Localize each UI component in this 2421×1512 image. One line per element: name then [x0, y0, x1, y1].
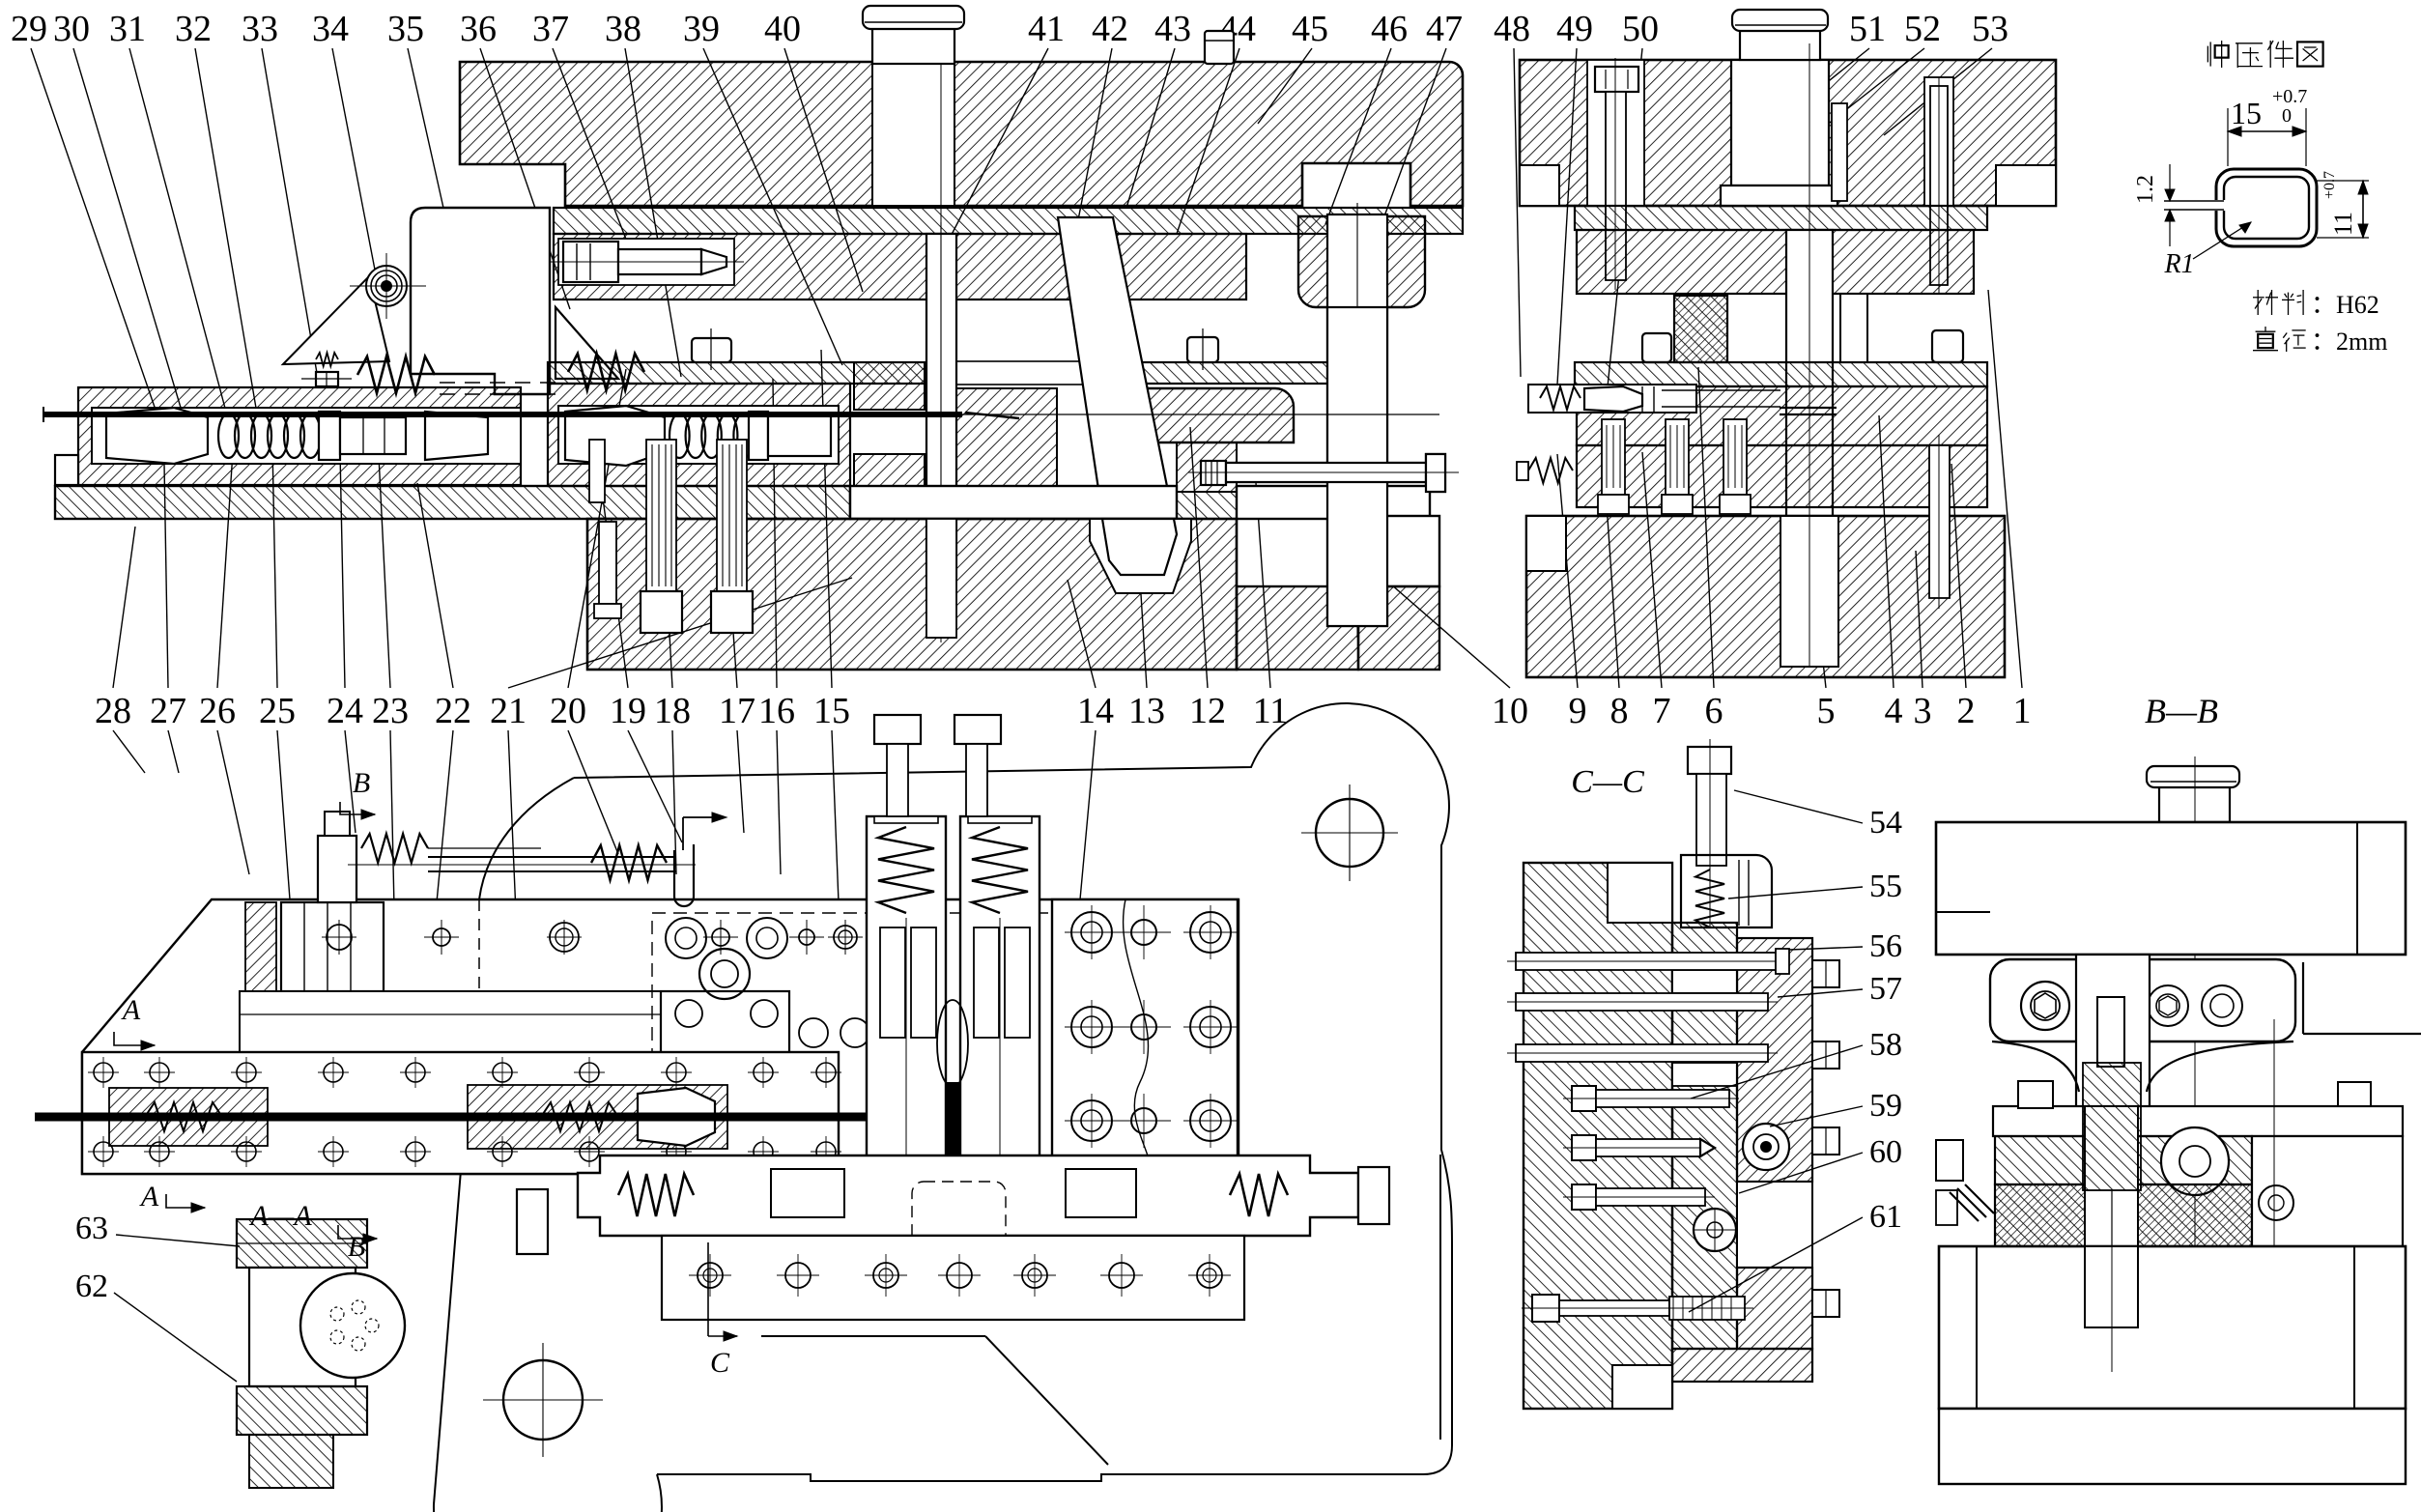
bolster B-B [1939, 1409, 2406, 1484]
svg-text:12: 12 [1189, 691, 1226, 731]
leader line 53 [1884, 48, 1992, 135]
leader line 6 up [1698, 367, 1714, 688]
leader line 25 down [277, 730, 290, 899]
lower die shoe left view [587, 519, 1237, 670]
bottom-left notch [1520, 165, 1559, 206]
screw head bumps right [1812, 960, 1839, 987]
bracket 62 bottom flange [237, 1386, 367, 1435]
leader line 19 down [628, 730, 682, 842]
svg-text:：2mm: ：2mm [2311, 328, 2387, 356]
second rail spring [591, 845, 667, 880]
leader line 44 [1177, 48, 1239, 234]
riser block (cross hatched) [1674, 296, 1727, 362]
bottom flange C-C [1672, 1349, 1812, 1382]
upper plate plan (stripper) [82, 899, 1239, 1180]
die area dashed boundary [652, 913, 1106, 1171]
svg-text:20: 20 [550, 691, 586, 731]
leader line 22 up [417, 483, 453, 688]
svg-text:5: 5 [1817, 691, 1836, 731]
svg-text:43: 43 [1154, 9, 1191, 49]
break curve across right block [1124, 899, 1152, 1180]
bracket foot [249, 1435, 333, 1488]
svg-text:35: 35 [387, 9, 424, 49]
die shank 51 top [1740, 29, 1820, 60]
svg-text:54: 54 [1869, 805, 1902, 841]
svg-text:1.2: 1.2 [2133, 175, 2158, 204]
small pin right of shank [1832, 103, 1847, 201]
svg-text:18: 18 [654, 691, 691, 731]
screw row 5 [1572, 1135, 1596, 1160]
leader line 31 [129, 48, 227, 415]
leader line 18 down [672, 730, 676, 874]
stud on stripper right [1187, 337, 1218, 362]
punch retainer block plan [661, 991, 789, 1180]
svg-text:26: 26 [199, 691, 236, 731]
hidden edge dashed [478, 899, 480, 1051]
screw pocket in right top plate [1587, 60, 1644, 206]
socket set screw in plate 43 [558, 239, 734, 285]
central punch block B-B [2076, 955, 2150, 1109]
slit in part [2210, 200, 2226, 211]
leader line 13 up [1132, 454, 1147, 688]
shank through-hole in top plate [872, 62, 954, 206]
stripper band right [1575, 362, 1987, 386]
rail feeder internals middle [468, 1085, 727, 1149]
feed strip centerline right [961, 414, 1439, 415]
leader line 21 up [508, 578, 852, 688]
leader line 20 up [568, 369, 626, 688]
svg-text:21: 21 [490, 691, 527, 731]
bolt above guide unit [318, 836, 356, 902]
leader line 19 up [597, 454, 628, 688]
lower die base plate 21 [55, 486, 850, 519]
leader line 7 up [1642, 452, 1662, 688]
cap screw 54 [1688, 747, 1731, 774]
slug hole below punch [926, 577, 956, 638]
svg-text:23: 23 [372, 691, 409, 731]
lower shoe B-B [1939, 1246, 2406, 1409]
guide pillar 47 redraw [1327, 307, 1387, 626]
leader line 47 [1345, 48, 1446, 324]
svg-text:3: 3 [1914, 691, 1932, 731]
svg-text:24: 24 [327, 691, 363, 731]
bolts above spring units [874, 715, 921, 744]
svg-text:R1: R1 [2163, 249, 2194, 279]
leader line 45 [1258, 48, 1312, 124]
svg-text:9: 9 [1569, 691, 1587, 731]
svg-text:51: 51 [1849, 9, 1886, 49]
stud bolt 44 top [1205, 31, 1234, 64]
leader line 11 up [1256, 483, 1270, 688]
stock guide block 35 [411, 208, 550, 394]
right small block C-C [1737, 938, 1812, 1182]
right block plan [1052, 899, 1238, 1180]
wire clamp cone left [106, 408, 208, 464]
bottom lobe [434, 1474, 662, 1512]
svg-text:30: 30 [53, 9, 90, 49]
svg-text:31: 31 [109, 9, 146, 49]
feeder rail block plan [82, 1052, 839, 1174]
feed spring middle [669, 414, 690, 458]
leader line 48 [1514, 48, 1521, 377]
shank hole + part 51 [1731, 60, 1829, 185]
top plate right view [1520, 60, 2056, 206]
bottom-right notch [1996, 165, 2056, 206]
svg-text:6: 6 [1705, 691, 1723, 731]
slug hole right view [1780, 516, 1838, 667]
stud on stripper left [692, 338, 731, 362]
leader line 16 down [777, 730, 781, 874]
title chong-ya-jian-tu [2207, 41, 2228, 68]
leader line 27 down [168, 730, 179, 773]
svg-text:+0.7: +0.7 [2272, 86, 2307, 107]
svg-text:49: 49 [1556, 9, 1593, 49]
cap screw in shoe A [646, 440, 676, 591]
leader line 23 up [379, 456, 390, 688]
bending cam 42 [1058, 217, 1177, 575]
leader line 43 [1126, 48, 1175, 208]
leader line 36 [480, 48, 570, 309]
svg-text:11: 11 [2329, 212, 2357, 236]
svg-text:63: 63 [75, 1211, 108, 1246]
leader line 5 up [1795, 406, 1826, 688]
bracket body [249, 1268, 356, 1386]
leader line 39 [703, 48, 842, 365]
leader line 26 up [217, 437, 234, 688]
svg-text:B—B: B—B [2145, 692, 2218, 730]
lobe circle bottom [503, 1360, 583, 1440]
leader line 29 [31, 48, 157, 415]
svg-text:58: 58 [1869, 1027, 1902, 1063]
punch 41 [926, 234, 956, 577]
svg-text:+0.7: +0.7 [2321, 171, 2338, 199]
bottom plate hole row [698, 1263, 723, 1288]
feed-line spring far left 30 [357, 357, 435, 393]
holes row on upper plate [327, 925, 352, 950]
svg-text:56: 56 [1869, 928, 1902, 964]
slug slot in shoe [926, 519, 956, 638]
leader line 24 down [345, 730, 356, 833]
dim 11 +0.7/0 right [2317, 180, 2369, 182]
svg-text:53: 53 [1972, 9, 2008, 49]
punch through bands B-B [2085, 1106, 2138, 1246]
leader line 18 up [659, 437, 672, 688]
stripper bolt below base [599, 522, 616, 604]
leader line 28 down [113, 730, 145, 773]
cap screw 50 [1595, 67, 1638, 92]
feed spring left [218, 414, 239, 458]
fastening screw 11 redraw [1226, 463, 1426, 482]
wire guide channel right [1528, 385, 1696, 413]
leader line 14 up [1068, 580, 1096, 688]
leader line 41 [942, 48, 1048, 253]
svg-text:47: 47 [1426, 9, 1463, 49]
svg-text:57: 57 [1869, 971, 1902, 1007]
svg-text:59: 59 [1869, 1088, 1902, 1124]
centerline B-B [2194, 756, 2196, 1420]
shank B-B [2159, 785, 2230, 822]
leader line 37 [553, 48, 630, 249]
svg-text:17: 17 [719, 691, 755, 731]
circle group mid [676, 1054, 701, 1079]
feeder block middle 37 [548, 384, 850, 486]
ghost dash lines [440, 382, 565, 384]
svg-text:1: 1 [2013, 691, 2032, 731]
svg-text:61: 61 [1869, 1199, 1902, 1235]
svg-text:4: 4 [1885, 691, 1903, 731]
bracket 63 top flange [237, 1219, 367, 1268]
leader line 50 [1606, 48, 1642, 406]
main hatched block C-C [1524, 863, 1672, 1409]
svg-text:39: 39 [683, 9, 720, 49]
leader line 14 down [1080, 730, 1096, 899]
leader line 25 up [272, 446, 277, 688]
die shank on top plate [872, 25, 954, 64]
top plate B-B [1936, 822, 2406, 955]
leader line 10 up [1383, 578, 1510, 688]
svg-text:36: 36 [460, 9, 497, 49]
bottom plate plan [662, 1236, 1244, 1320]
svg-text:8: 8 [1610, 691, 1629, 731]
lower shoe right support block [1358, 516, 1439, 586]
leader line 42 [1074, 48, 1112, 240]
strip guide rail plan [428, 856, 676, 858]
lower rail with springs [578, 1155, 1358, 1236]
part outline rounded square [2216, 169, 2317, 246]
leader line 35 [408, 48, 449, 234]
leader line 15 up [821, 350, 832, 688]
punch slot in shoe B-B [2085, 1246, 2138, 1327]
leader line 8 up [1604, 462, 1619, 688]
svg-text:45: 45 [1292, 9, 1328, 49]
leader line 4 up [1879, 415, 1894, 688]
leader line 34 [332, 48, 379, 290]
svg-text:15: 15 [813, 691, 850, 731]
leader line 52 [1799, 48, 1924, 147]
right plate edge B-B [2302, 962, 2304, 1034]
punch holder plate right [1577, 230, 1974, 294]
leader line 28 up [113, 527, 135, 688]
die plate band B-B [1993, 1106, 2403, 1136]
leader line 17 down [737, 730, 744, 833]
horizontal channel in plan [240, 991, 661, 1052]
die retainer block 13 [1120, 388, 1294, 442]
shoe inner right edge [1439, 1155, 1441, 1440]
right block holes 3x3 [1071, 912, 1112, 953]
spring 55 [1695, 870, 1724, 927]
svg-text:46: 46 [1371, 9, 1408, 49]
svg-text:2: 2 [1957, 691, 1976, 731]
funnel marks below punch unit [850, 1174, 945, 1196]
svg-text:34: 34 [312, 9, 349, 49]
C section top mark [682, 817, 684, 850]
cam clearance pocket in shoe [1090, 519, 1191, 593]
leader line 15 down [832, 730, 839, 902]
socket screws B-B [2021, 982, 2069, 1030]
pin 52 [1930, 86, 1948, 285]
leader line 46 [1325, 48, 1391, 224]
leader line 27 up [164, 464, 168, 688]
screw band right [1577, 445, 1987, 507]
leader line 33 [262, 48, 319, 385]
svg-text:33: 33 [242, 9, 278, 49]
svg-text:48: 48 [1494, 9, 1530, 49]
notch left [1526, 516, 1566, 571]
svg-text:15: 15 [2231, 96, 2262, 130]
svg-text:22: 22 [435, 691, 471, 731]
leader line 51 [1785, 48, 1869, 116]
screw row 4 [1572, 1086, 1596, 1111]
dowel pin 19 [589, 440, 605, 502]
svg-text:55: 55 [1869, 869, 1902, 904]
svg-text:16: 16 [758, 691, 795, 731]
circle group upper [666, 918, 706, 958]
rocker arm 33 [283, 276, 389, 364]
svg-text:A: A [121, 994, 141, 1026]
svg-text:27: 27 [150, 691, 186, 731]
leader line 9 up [1557, 454, 1578, 688]
svg-text:29: 29 [11, 9, 47, 49]
svg-text:7: 7 [1653, 691, 1671, 731]
lower dowel right [1929, 445, 1950, 598]
feeder channel middle [558, 406, 839, 464]
spring right of bolt [361, 834, 428, 863]
svg-text:25: 25 [259, 691, 296, 731]
punch rod right view [1786, 230, 1833, 562]
upper die shoe (top plate) part 45 [460, 62, 1463, 206]
leader line 38 [625, 48, 681, 377]
screw+spring mech 2 [609, 1058, 686, 1083]
svg-text:38: 38 [605, 9, 641, 49]
leader line 12 up [1190, 427, 1208, 688]
roller / eyelet 34 [366, 266, 407, 306]
svg-text:60: 60 [1869, 1134, 1902, 1170]
diameter note [2253, 327, 2278, 351]
strip channel lines right view [1662, 389, 1780, 391]
leader line 23 down [390, 730, 394, 908]
screw row 6 [1572, 1184, 1596, 1210]
notch bottom [1612, 1365, 1672, 1409]
cap screw in shoe B [717, 440, 747, 591]
leader line 26 down [217, 730, 249, 874]
dark band B-B [1995, 1184, 2252, 1246]
leader line 21 down [508, 730, 522, 1051]
leader line 17 up [720, 437, 737, 688]
guide bushing 46 [1298, 216, 1425, 307]
screw+spring mech 1 [361, 1058, 417, 1083]
guide unit 23/24 plan [281, 902, 384, 991]
wire clamp cone middle [565, 406, 665, 466]
stripper plate top band [548, 362, 1353, 384]
leader line 1 up [1988, 290, 2022, 688]
leader line 2 up [1951, 464, 1966, 688]
circle 60 [1694, 1209, 1736, 1251]
svg-text:C—C: C—C [1571, 764, 1644, 800]
pin row 1 [1516, 953, 1776, 970]
right band B-B [2252, 1136, 2403, 1246]
svg-text:13: 13 [1128, 691, 1165, 731]
lifter spring 38 left [568, 354, 644, 390]
long screw row 7 [1532, 1295, 1559, 1322]
C section letter bottom [707, 1242, 709, 1336]
svg-text:50: 50 [1622, 9, 1659, 49]
leader line 40 [784, 48, 863, 292]
svg-text:B: B [353, 767, 370, 799]
svg-text:28: 28 [95, 691, 131, 731]
feeder channel left [92, 408, 521, 464]
small screws in screw band [1602, 419, 1625, 495]
punch fixing plate 43 [554, 234, 1246, 300]
upper holder B-B [1990, 959, 2295, 1041]
svg-text:42: 42 [1092, 9, 1128, 49]
heavy feed line plan [35, 1113, 869, 1122]
die insert right of punch [956, 388, 1057, 489]
circle 59 [1743, 1124, 1789, 1170]
plate stack middle [1672, 923, 1737, 1349]
leader line 24 up [340, 452, 345, 688]
waist curves [1992, 1041, 2079, 1092]
ejector spring left right-view [1528, 458, 1573, 483]
svg-text:14: 14 [1077, 691, 1114, 731]
stud bolts right stripper [1642, 333, 1671, 362]
guide pillar 47 [1327, 214, 1387, 626]
hatched die band B-B [1995, 1136, 2252, 1184]
rail feeder internals left [109, 1088, 268, 1146]
wire guide bush 31 [425, 412, 488, 460]
punch centerline left [940, 29, 942, 642]
svg-text:52: 52 [1904, 9, 1941, 49]
small screw with spring 33 [316, 353, 338, 366]
guide rail hook [674, 844, 694, 906]
svg-text:：H62: ：H62 [2311, 291, 2379, 319]
svg-text:37: 37 [532, 9, 569, 49]
die insert left of punch [854, 362, 925, 410]
leader line 49 [1557, 48, 1577, 385]
pin slot in right top plate [1924, 77, 1953, 206]
svg-text:62: 62 [75, 1269, 108, 1304]
lobe circle top right [1316, 799, 1383, 867]
punch blade slot [937, 1000, 968, 1087]
upper backing plate 44 [554, 208, 1463, 234]
svg-text:0: 0 [2282, 105, 2292, 127]
window in stripper band [956, 361, 1121, 385]
leader line 20 down [568, 730, 618, 854]
feeder block left group 29-32 [78, 387, 521, 485]
svg-text:40: 40 [764, 9, 801, 49]
svg-text:41: 41 [1028, 9, 1065, 49]
left bolt of lower rail [517, 1189, 548, 1254]
svg-text:A: A [139, 1181, 159, 1212]
bending cam 42 tip redraw [1102, 519, 1177, 575]
lower shoe outline plan [434, 778, 574, 1504]
right screw of lower rail [1358, 1167, 1389, 1224]
leader line 16 up [773, 379, 777, 688]
wire guide left B-B [1936, 1140, 1963, 1181]
upper backing plate right [1575, 206, 1987, 230]
svg-text:32: 32 [175, 9, 212, 49]
svg-text:19: 19 [610, 691, 646, 731]
hatched patch left edge [245, 902, 276, 991]
svg-text:C: C [710, 1347, 730, 1379]
svg-text:10: 10 [1492, 691, 1528, 731]
leader line 22 down [437, 730, 453, 902]
spring retainer block [1681, 855, 1772, 927]
leader line 30 [73, 48, 189, 437]
leader line 32 [195, 48, 259, 425]
spring units pair (vertical) [867, 816, 946, 1180]
roller circle with balls [300, 1273, 405, 1378]
material note [2253, 290, 2278, 315]
